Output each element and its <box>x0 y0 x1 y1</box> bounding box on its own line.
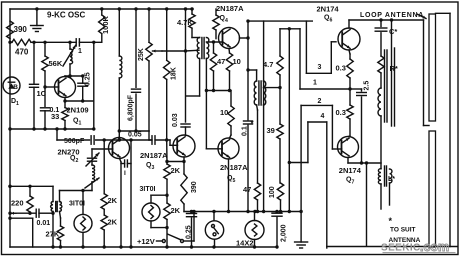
svg-text:7: 7 <box>352 180 355 186</box>
svg-text:2N187A: 2N187A <box>220 163 248 172</box>
svg-text:4: 4 <box>321 113 325 120</box>
svg-text:2K: 2K <box>171 166 181 175</box>
svg-text:2K: 2K <box>108 218 118 227</box>
svg-text:2N174: 2N174 <box>339 166 362 175</box>
svg-text:2N187A: 2N187A <box>140 151 168 160</box>
svg-text:0.05: 0.05 <box>128 132 142 139</box>
svg-text:47: 47 <box>243 185 251 194</box>
svg-text:390: 390 <box>191 181 198 193</box>
svg-text:*: * <box>251 120 255 129</box>
svg-text:0.25: 0.25 <box>85 72 92 86</box>
svg-text:1: 1 <box>313 80 317 87</box>
svg-text:I: I <box>124 170 126 177</box>
svg-text:0.1: 0.1 <box>242 126 249 136</box>
svg-text:33: 33 <box>51 112 59 121</box>
svg-text:*: * <box>389 216 393 226</box>
svg-text:L*: L* <box>388 176 395 183</box>
svg-text:2N109: 2N109 <box>67 106 89 115</box>
svg-text:6,800pF: 6,800pF <box>128 94 135 121</box>
svg-text:3: 3 <box>152 165 155 171</box>
svg-text:10: 10 <box>220 108 228 117</box>
svg-text:LOOP ANTENNA: LOOP ANTENNA <box>360 12 424 19</box>
svg-text:2,000: 2,000 <box>281 224 288 242</box>
svg-text:B: B <box>13 84 18 91</box>
svg-text:47: 47 <box>217 57 225 66</box>
svg-text:1: 1 <box>78 48 82 55</box>
svg-text:0.03: 0.03 <box>172 113 179 127</box>
svg-text:2N187A: 2N187A <box>216 4 244 13</box>
svg-text:0.3: 0.3 <box>336 108 346 117</box>
svg-text:5: 5 <box>233 178 236 184</box>
svg-text:9-KC OSC: 9-KC OSC <box>47 11 85 20</box>
svg-text:C*: C* <box>389 27 397 36</box>
svg-text:220: 220 <box>11 199 24 208</box>
svg-text:2N270: 2N270 <box>58 148 80 157</box>
svg-text:470: 470 <box>15 48 29 57</box>
svg-text:1: 1 <box>79 121 82 127</box>
svg-text:14X2: 14X2 <box>236 238 254 247</box>
svg-text:2K: 2K <box>108 196 118 205</box>
svg-text:2K: 2K <box>171 206 181 215</box>
svg-text:18K: 18K <box>171 67 178 80</box>
svg-text:R*: R* <box>390 64 398 73</box>
svg-text:2: 2 <box>318 98 322 105</box>
svg-text:2N174: 2N174 <box>317 4 340 13</box>
svg-text:4: 4 <box>225 18 228 24</box>
svg-text:0.25: 0.25 <box>185 225 192 239</box>
svg-text:56K: 56K <box>49 59 63 68</box>
svg-text:500pF: 500pF <box>64 138 85 145</box>
svg-text:390: 390 <box>14 25 28 34</box>
svg-text:10: 10 <box>233 57 241 66</box>
svg-text:100K: 100K <box>101 15 110 34</box>
svg-text:3: 3 <box>318 64 322 71</box>
svg-text:6: 6 <box>330 18 333 24</box>
svg-text:0.3: 0.3 <box>336 64 346 73</box>
svg-text:2: 2 <box>76 158 79 164</box>
svg-text:SEEKIC: SEEKIC <box>381 243 421 254</box>
svg-text:.com: .com <box>420 240 449 254</box>
svg-text:+12V: +12V <box>137 237 155 246</box>
svg-text:25K: 25K <box>138 48 145 61</box>
svg-text:TO SUIT: TO SUIT <box>390 227 416 234</box>
svg-text:3IT0I: 3IT0I <box>140 186 156 193</box>
svg-text:1: 1 <box>16 101 19 107</box>
svg-text:39: 39 <box>267 126 275 135</box>
svg-text:4.7: 4.7 <box>263 60 273 69</box>
svg-text:2.5: 2.5 <box>364 81 371 91</box>
svg-text:0.01: 0.01 <box>37 220 51 227</box>
svg-text:27K: 27K <box>46 230 60 239</box>
svg-text:100: 100 <box>269 186 276 198</box>
